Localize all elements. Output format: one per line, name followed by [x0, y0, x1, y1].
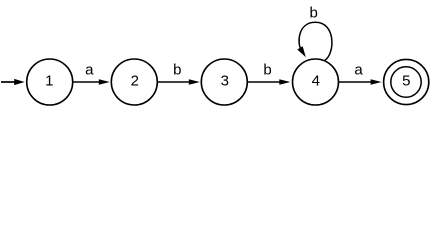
- svg-text:4: 4: [312, 72, 320, 89]
- initial arrow wire: [1, 81, 16, 83]
- state 2: [111, 59, 157, 105]
- transition wire 3->4: [247, 81, 281, 83]
- svg-text:1: 1: [45, 72, 53, 89]
- arrowhead 4->5: [371, 79, 382, 84]
- transition wire 2->3: [157, 81, 191, 83]
- svg-text:2: 2: [131, 72, 139, 89]
- state 5 outer circle (accepting): [384, 59, 429, 104]
- arrowhead 1->2: [99, 79, 110, 84]
- transition wire 1->2: [73, 81, 101, 83]
- arrowhead 2->3: [189, 79, 200, 84]
- self-loop arrowhead: [297, 46, 306, 57]
- state 5 inner circle: [391, 67, 421, 97]
- svg-text:a: a: [85, 62, 94, 79]
- svg-text:a: a: [354, 62, 363, 79]
- svg-text:5: 5: [402, 72, 410, 89]
- svg-text:b: b: [263, 62, 271, 79]
- self-loop wire b on state 4: [299, 22, 332, 60]
- transition wire 4->5: [339, 81, 373, 83]
- state 1: [27, 59, 73, 105]
- state 3: [201, 59, 247, 105]
- svg-text:b: b: [310, 4, 318, 21]
- initial arrow head: [14, 79, 24, 85]
- arrowhead 3->4: [279, 79, 290, 84]
- state 4: [293, 59, 339, 105]
- svg-text:3: 3: [221, 72, 229, 89]
- svg-text:b: b: [173, 62, 181, 79]
